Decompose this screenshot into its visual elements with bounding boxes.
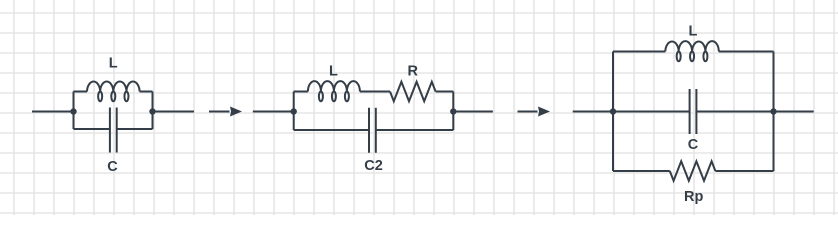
wire: left lead of circuit 1 [32, 111, 74, 113]
wire: right lead of circuit 2 [453, 111, 493, 113]
svg-text:C: C [107, 159, 118, 175]
capacitor C (circuit 1) plates [110, 108, 117, 153]
node: circuit 2 left junction [291, 108, 297, 114]
wire: right lead of circuit 1 [153, 111, 195, 113]
arrow between circuit 2 and circuit 3 [518, 107, 551, 117]
wire: circuit 2 segment between L and R [360, 91, 390, 93]
node: circuit 2 right junction [450, 108, 456, 114]
node: circuit 3 right junction [770, 108, 776, 114]
wire: circuit 3 bottom-right segment [715, 170, 773, 172]
wire: circuit 2 top-right segment [436, 91, 454, 93]
wire: circuit 3 left vertical [612, 52, 614, 172]
capacitor C2 plates [369, 108, 376, 153]
wire: circuit 1 top-right segment [140, 91, 153, 93]
resistor R (circuit 2) [390, 82, 436, 101]
wire: circuit 1 bottom-left segment [74, 128, 110, 130]
svg-text:C: C [688, 137, 699, 153]
wire: circuit 1 bottom-right segment [117, 128, 153, 130]
inductor L (circuit 1) [87, 82, 140, 102]
inductor L (circuit 2) [308, 81, 360, 101]
svg-text:R: R [407, 64, 418, 80]
wire: circuit 2 bottom-right segment [376, 129, 454, 131]
wire: circuit 2 bottom-left segment [294, 129, 369, 131]
capacitor C (circuit 3) plates [690, 89, 697, 134]
wire: circuit 3 top-right segment [719, 51, 774, 53]
wire: circuit 3 middle-right segment [696, 111, 773, 113]
svg-text:Rp: Rp [684, 189, 703, 205]
inductor L (circuit 3) [665, 41, 719, 61]
wire: circuit 2 right vertical [452, 92, 454, 131]
svg-text:C2: C2 [364, 158, 383, 174]
svg-text:L: L [329, 64, 338, 80]
wire: right lead of circuit 3 [774, 111, 814, 113]
wire: left lead of circuit 3 [573, 111, 613, 113]
wire: circuit 3 top-left segment [613, 51, 665, 53]
wire: circuit 3 middle-left segment [613, 111, 690, 113]
node: circuit 1 right junction [149, 108, 155, 114]
arrow between circuit 1 and circuit 2 [209, 107, 242, 117]
node: circuit 3 left junction [610, 108, 616, 114]
wire: circuit 2 left vertical [293, 92, 295, 131]
svg-text:L: L [688, 24, 697, 40]
wire: circuit 1 left vertical [73, 92, 75, 130]
node: circuit 1 left junction [70, 108, 76, 114]
wire: circuit 3 right vertical [773, 52, 775, 172]
wire: left lead of circuit 2 [253, 111, 294, 113]
svg-text:L: L [109, 55, 118, 71]
resistor Rp (circuit 3) [670, 161, 716, 180]
wire: circuit 2 top-left segment [294, 91, 308, 93]
wire: circuit 1 top-left segment [74, 91, 88, 93]
wire: circuit 3 bottom-left segment [613, 170, 670, 172]
wire: circuit 1 right vertical [152, 92, 154, 130]
